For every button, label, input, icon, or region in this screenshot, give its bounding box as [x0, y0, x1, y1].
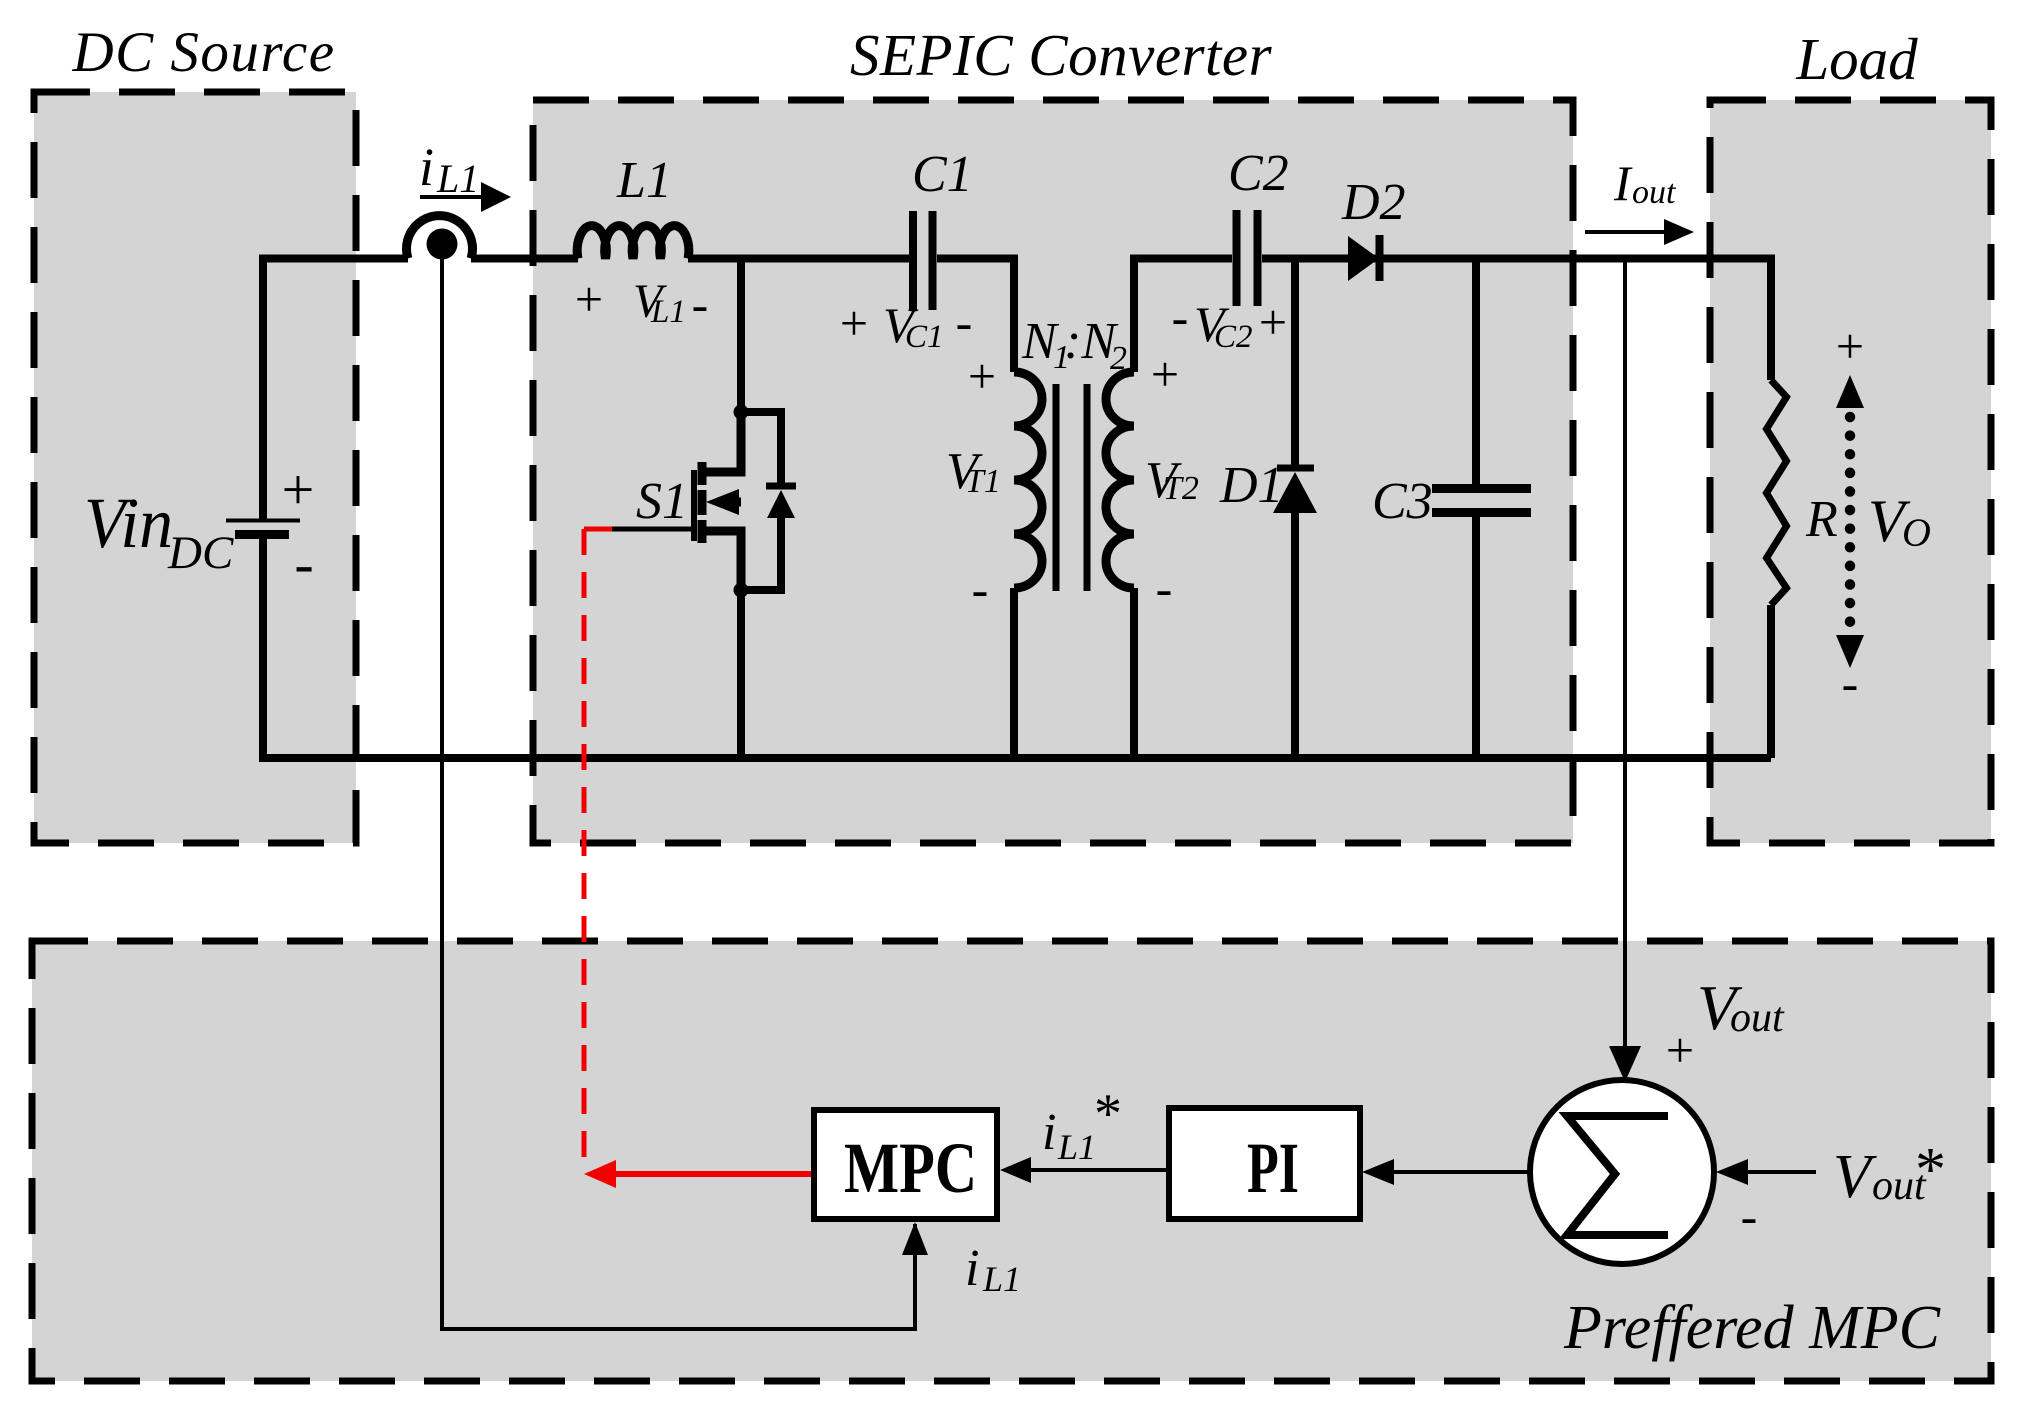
- svg-text:+: +: [1151, 346, 1179, 402]
- svg-text:C1: C1: [905, 319, 944, 355]
- svg-text:C3: C3: [1372, 473, 1433, 530]
- svg-text:+: +: [1259, 294, 1287, 350]
- svg-text:i: i: [419, 137, 434, 197]
- svg-text:Preffered MPC: Preffered MPC: [1563, 1294, 1941, 1362]
- svg-text:DC: DC: [167, 527, 234, 579]
- svg-text:T1: T1: [965, 463, 1001, 500]
- svg-text:i: i: [965, 1240, 979, 1297]
- svg-text:C2: C2: [1214, 319, 1253, 355]
- svg-text:*: *: [1915, 1136, 1946, 1204]
- svg-text:Load: Load: [1795, 26, 1918, 92]
- svg-text:O: O: [1902, 510, 1931, 555]
- svg-text:-: -: [956, 294, 973, 350]
- svg-text:+: +: [575, 271, 603, 327]
- svg-text:PI: PI: [1247, 1128, 1299, 1208]
- svg-text:DC Source: DC Source: [71, 21, 335, 84]
- svg-text:-: -: [1172, 289, 1189, 345]
- svg-text:-: -: [294, 531, 313, 596]
- svg-text:L1: L1: [982, 1259, 1021, 1299]
- svg-text:-: -: [1741, 1188, 1758, 1244]
- svg-text:+: +: [968, 348, 996, 404]
- svg-text:-: -: [692, 276, 709, 332]
- svg-text:+: +: [282, 457, 315, 522]
- svg-text:2: 2: [1110, 340, 1127, 377]
- svg-text:+: +: [1836, 318, 1864, 374]
- svg-text:Vin: Vin: [84, 483, 173, 563]
- svg-text:out: out: [1632, 174, 1677, 211]
- svg-text:C1: C1: [912, 146, 973, 203]
- svg-text:+: +: [1666, 1022, 1694, 1078]
- svg-text:L1: L1: [1057, 1127, 1096, 1167]
- svg-text:L1: L1: [650, 294, 686, 330]
- svg-text:D2: D2: [1341, 174, 1406, 231]
- svg-text:+: +: [840, 295, 868, 351]
- svg-text:L1: L1: [616, 152, 672, 209]
- svg-text:T2: T2: [1163, 470, 1199, 507]
- svg-text:out: out: [1730, 995, 1785, 1041]
- svg-text:*: *: [1094, 1083, 1122, 1145]
- svg-text:MPC: MPC: [844, 1128, 977, 1208]
- svg-text:D1: D1: [1219, 457, 1284, 514]
- svg-text:V: V: [1833, 1143, 1877, 1211]
- svg-text:S1: S1: [636, 473, 688, 530]
- svg-text:i: i: [1042, 1104, 1056, 1161]
- svg-text:C2: C2: [1228, 145, 1289, 202]
- svg-text:I: I: [1613, 155, 1633, 211]
- svg-text:R: R: [1805, 491, 1838, 548]
- svg-text:SEPIC Converter: SEPIC Converter: [850, 22, 1273, 88]
- svg-text:L1: L1: [436, 156, 479, 201]
- svg-text:-: -: [1842, 655, 1859, 711]
- svg-text:-: -: [1156, 560, 1173, 616]
- svg-text:-: -: [972, 561, 989, 617]
